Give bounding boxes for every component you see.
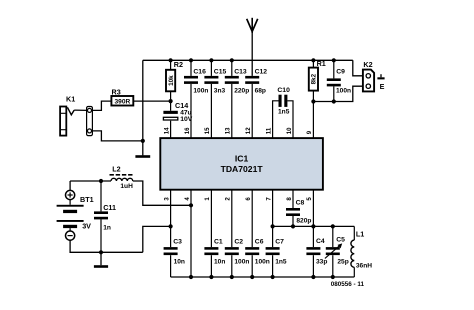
wire C15 to IC — [210, 84, 212, 138]
junction rail/C9 — [332, 58, 336, 62]
svg-text:3n3: 3n3 — [214, 87, 226, 94]
wire pin line to C1 — [210, 190, 212, 247]
svg-text:1: 1 — [204, 197, 211, 201]
svg-text:100n: 100n — [255, 258, 270, 265]
junction rail/C13 — [230, 58, 234, 62]
junction pin4/bottom rail — [189, 275, 193, 279]
svg-text:33p: 33p — [316, 258, 327, 265]
svg-text:C1: C1 — [214, 239, 223, 246]
wire R2 to node — [170, 91, 172, 101]
svg-text:E: E — [380, 82, 385, 91]
wire C12 to pin 12 — [251, 84, 253, 138]
wire battery top — [69, 181, 71, 190]
wire C10 right to pin 10 — [287, 101, 293, 138]
svg-text:C4: C4 — [316, 238, 325, 245]
svg-text:C10: C10 — [277, 87, 290, 94]
capacitor C16 plates — [184, 76, 198, 84]
capacitor C7 plates — [266, 247, 280, 255]
capacitor C8 plates — [286, 208, 300, 216]
wire pin line to C2 — [231, 190, 233, 247]
wire cell to minus terminal — [69, 228, 71, 231]
svg-text:100n: 100n — [336, 88, 351, 95]
svg-text:C8: C8 — [296, 200, 305, 207]
capacitor C9 plates — [327, 78, 341, 86]
svg-text:C3: C3 — [173, 239, 182, 246]
wire rail to C15 — [210, 60, 212, 76]
junction C5/mid wire — [331, 224, 335, 228]
capacitor C5 trimmer arrow — [325, 243, 342, 258]
junction R1 bottom — [311, 99, 315, 103]
wire plus terminal to cell — [69, 200, 71, 205]
wire rail to K2 top — [353, 60, 363, 76]
connector K1 contact strip — [87, 107, 93, 136]
capacitor C10 plates — [279, 95, 288, 107]
svg-text:C6: C6 — [255, 239, 264, 246]
wire ground rail to pin 3 — [143, 226, 171, 252]
wire pin 8 to C8 — [292, 190, 294, 208]
capacitor C5 plates — [326, 247, 340, 255]
connector K1 jack body — [60, 107, 66, 136]
inductor L2 core (dashed) — [110, 174, 134, 176]
svg-text:8k2: 8k2 — [311, 73, 318, 84]
ground (K1) — [135, 155, 150, 158]
svg-text:7: 7 — [265, 197, 272, 201]
junction pin7/mid wire — [271, 224, 275, 228]
wire VCO tank bus — [273, 225, 355, 227]
wire pin 4 line — [190, 190, 192, 277]
wire C7 to bottom rail — [272, 255, 274, 277]
svg-text:68p: 68p — [255, 87, 266, 94]
junction C2/bottom rail — [230, 275, 234, 279]
connector K1 contact pin bottom — [88, 129, 92, 133]
resistor R1 — [309, 68, 318, 91]
svg-text:14: 14 — [163, 127, 170, 134]
resistor R2 — [166, 70, 175, 92]
wire pin line to C6 — [251, 190, 253, 247]
svg-text:10: 10 — [286, 127, 293, 134]
wire battery plus to L2 — [70, 180, 111, 182]
wire L2 to pin 4 — [133, 181, 191, 205]
svg-text:C13: C13 — [234, 69, 247, 76]
wire pin 3 line — [170, 190, 172, 247]
svg-text:13: 13 — [225, 127, 232, 134]
svg-text:K1: K1 — [66, 95, 75, 104]
capacitor C15 plates — [204, 76, 218, 84]
wire antenna to C12 — [251, 33, 253, 76]
wire K1 top contact to R3 — [92, 101, 112, 110]
svg-text:16: 16 — [184, 127, 191, 134]
wire C4 to bottom rail — [312, 255, 314, 277]
wire K1 bottom contact to ground — [92, 131, 143, 141]
svg-text:100n: 100n — [234, 258, 249, 265]
junction C5/bottom rail — [331, 275, 335, 279]
svg-text:4: 4 — [184, 197, 191, 201]
wire C16 to IC — [190, 84, 192, 138]
wire C11 bottom — [100, 219, 102, 252]
svg-text:C7: C7 — [275, 239, 284, 246]
svg-text:9: 9 — [306, 130, 313, 134]
svg-text:C9: C9 — [336, 68, 345, 75]
capacitor C2 plates — [225, 247, 239, 255]
junction pin4/supply — [189, 203, 193, 207]
wire C2 to bottom rail — [231, 255, 233, 277]
svg-text:10n: 10n — [214, 258, 225, 265]
junction C11 bottom / ground — [99, 250, 103, 254]
svg-text:L2: L2 — [112, 165, 120, 174]
junction C6/bottom rail — [250, 275, 254, 279]
inductor L2 — [111, 178, 133, 181]
svg-text:8: 8 — [286, 197, 293, 201]
capacitor C14 negative plate — [163, 117, 177, 120]
capacitor C6 plates — [245, 247, 259, 255]
svg-text:5: 5 — [306, 197, 313, 201]
connector K2 pin 1 — [366, 74, 370, 78]
junction C7/bottom rail — [271, 275, 275, 279]
capacitor C1 plates — [204, 247, 218, 255]
svg-text:220p: 220p — [234, 87, 249, 94]
wire rail left drop to ground — [142, 60, 144, 155]
wire C5 top — [332, 226, 334, 247]
wire node to C14 — [170, 101, 172, 111]
svg-text:K2: K2 — [363, 60, 372, 69]
svg-text:IC1: IC1 — [235, 154, 249, 164]
battery BT1 cells — [57, 205, 84, 228]
battery BT1 plus terminal — [66, 190, 75, 199]
connector K2 body — [363, 70, 374, 92]
svg-text:3V: 3V — [82, 221, 91, 230]
junction C4/bottom rail — [311, 275, 315, 279]
wire pin5 to C4 — [312, 226, 314, 247]
svg-text:390R: 390R — [115, 98, 131, 105]
junction R3/R2/C14 node — [169, 99, 173, 103]
wire C3 to bottom rail — [170, 255, 172, 277]
wire pin 5 line — [312, 190, 314, 227]
wire C8 to mid wire — [292, 216, 294, 226]
op-amp IC1 TDA7021T body — [160, 138, 323, 190]
wire R3 to C14/R2 node — [133, 100, 170, 102]
wire rail to C13 — [231, 60, 233, 76]
capacitor C14 positive plate — [163, 111, 177, 114]
svg-text:1n5: 1n5 — [278, 109, 290, 116]
svg-text:BT1: BT1 — [80, 195, 94, 204]
svg-text:1n5: 1n5 — [275, 258, 287, 265]
svg-text:C12: C12 — [255, 69, 268, 76]
svg-text:L1: L1 — [356, 229, 364, 238]
svg-text:11: 11 — [265, 127, 272, 134]
wire C14 to pin 14 — [170, 121, 172, 138]
junction pin 3 — [169, 224, 173, 228]
connector K1 tip-contact spring — [67, 107, 74, 115]
svg-text:1n: 1n — [103, 225, 111, 232]
svg-text:C5: C5 — [336, 236, 345, 243]
capacitor C3 plates — [164, 247, 178, 255]
earth symbol E — [377, 74, 384, 79]
svg-text:1uH: 1uH — [120, 183, 133, 190]
wire R1 node to pin 9 — [312, 102, 314, 139]
junction C1/bottom rail — [209, 275, 213, 279]
capacitor C13 plates — [225, 76, 239, 84]
svg-text:100n: 100n — [193, 87, 208, 94]
junction rail/R1 — [311, 58, 315, 62]
junction rail/C15 — [209, 58, 213, 62]
wire C10 left to pin 11 — [273, 101, 279, 138]
wire C13 to IC — [231, 84, 233, 138]
svg-text:C16: C16 — [193, 69, 206, 76]
svg-text:12: 12 — [245, 127, 252, 134]
svg-text:3: 3 — [163, 197, 170, 201]
wire rail to C16 — [190, 60, 192, 76]
wire rail to R1 — [312, 60, 314, 67]
wire R1/C9 bottom link — [313, 101, 333, 103]
wire battery minus to ground rail — [70, 240, 143, 252]
wire pin 7 line — [272, 190, 274, 247]
inductor L1 — [351, 240, 354, 267]
wire C11 top — [100, 181, 102, 211]
antenna ANT1 — [247, 18, 258, 33]
wire mid wire to L1 — [353, 226, 355, 240]
ground (battery) — [94, 252, 108, 268]
resistor R3 — [111, 96, 133, 106]
battery BT1 minus terminal — [66, 231, 75, 240]
svg-text:R2: R2 — [174, 60, 183, 69]
wire rail to C9 — [333, 60, 335, 78]
svg-text:15: 15 — [204, 127, 211, 134]
wire L1 to bottom rail — [353, 267, 355, 277]
junction C8/mid wire — [291, 224, 295, 228]
svg-text:080556 - 11: 080556 - 11 — [331, 281, 365, 288]
svg-text:10k: 10k — [168, 75, 175, 86]
svg-text:TDA7021T: TDA7021T — [221, 164, 264, 174]
junction rail/R2 — [169, 58, 173, 62]
capacitor C4 plates — [306, 247, 320, 255]
wire K2 bottom to C9/R1 node — [334, 86, 363, 101]
capacitor C11 plates — [94, 211, 108, 219]
svg-text:36nH: 36nH — [356, 262, 372, 269]
wire K1 tip to spring — [74, 109, 87, 111]
svg-text:25p: 25p — [337, 258, 348, 265]
wire C5 to bottom rail — [332, 255, 334, 277]
wire C6 to bottom rail — [251, 255, 253, 277]
wire C9 to bottom wire — [333, 86, 335, 101]
svg-text:820p: 820p — [296, 218, 311, 225]
junction rail/C16 — [189, 58, 193, 62]
junction C11 top — [99, 179, 103, 183]
wire top supply rail — [143, 59, 353, 61]
junction K1 return — [141, 139, 145, 143]
capacitor C12 plates — [245, 76, 259, 84]
connector K2 pin 2 — [366, 84, 370, 88]
svg-text:C2: C2 — [234, 239, 243, 246]
svg-text:C15: C15 — [214, 69, 227, 76]
wire bottom rail — [171, 276, 355, 278]
svg-text:C11: C11 — [103, 203, 116, 212]
svg-text:2: 2 — [225, 197, 232, 201]
connector K1 contact pin top — [88, 108, 92, 112]
svg-text:6: 6 — [245, 197, 252, 201]
junction C9 bottom — [332, 99, 336, 103]
junction pin5/mid wire — [311, 224, 315, 228]
wire R1 to bottom node — [312, 91, 314, 102]
wire rail to R2 — [170, 60, 172, 70]
svg-text:10n: 10n — [174, 258, 185, 265]
wire C1 to bottom rail — [210, 255, 212, 277]
